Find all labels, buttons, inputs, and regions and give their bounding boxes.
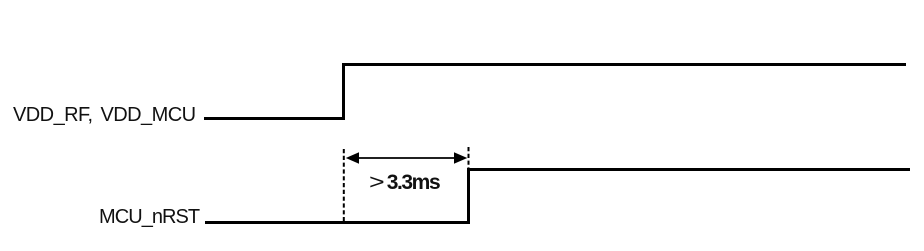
label MCU_nRST xyxy=(99,207,199,227)
wire VDD high level xyxy=(342,63,906,66)
right arrowhead xyxy=(454,152,467,163)
wire VDD rising edge xyxy=(342,63,345,120)
label >3.3ms xyxy=(369,173,439,193)
label VDD_RF, VDD_MCU xyxy=(13,105,196,125)
dashed reference line at MCU_nRST rising edge xyxy=(468,147,470,168)
wire MCU_nRST rising edge xyxy=(467,168,470,224)
wire VDD low level xyxy=(204,117,345,120)
dashed reference line at VDD rising edge xyxy=(343,149,345,223)
wire MCU_nRST high level xyxy=(467,168,910,171)
left arrowhead xyxy=(346,152,359,163)
dimension arrow shaft xyxy=(356,157,458,159)
wire MCU_nRST low level xyxy=(205,221,470,224)
